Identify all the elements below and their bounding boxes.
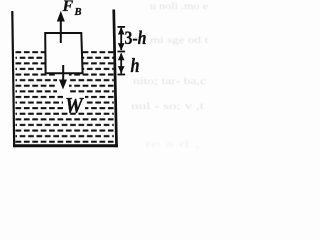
- white keep-out around W arrow: [57, 74, 69, 93]
- svg-text:F: F: [62, 0, 74, 15]
- block: [45, 33, 82, 73]
- svg-text:h: h: [131, 55, 140, 77]
- svg-text:u noli .mo e: u noli .mo e: [150, 1, 208, 11]
- svg-text:B: B: [74, 7, 82, 18]
- faint bleed-through text, right margin: [131, 1, 209, 149]
- dimension arrow (h): [118, 53, 126, 76]
- svg-text:te s d ,: te s d ,: [145, 139, 200, 149]
- liquid (dashed rows): [16, 51, 114, 143]
- buoyant force arrow F_B: [57, 11, 65, 43]
- tank right wall: [112, 10, 118, 148]
- svg-text:mi sge od t: mi sge od t: [150, 35, 209, 45]
- tank bottom: [13, 144, 118, 147]
- svg-text:W: W: [65, 92, 85, 117]
- white keep-out around W label: [63, 95, 85, 113]
- weight arrow W: [59, 65, 67, 90]
- svg-text:3-h: 3-h: [125, 28, 147, 49]
- svg-text:nul - so; v ,t: nul - so; v ,t: [131, 101, 205, 111]
- svg-text:nito; tar- ba,c: nito; tar- ba,c: [133, 76, 206, 86]
- tank left wall: [11, 11, 15, 147]
- dimension arrow (3-h): [118, 26, 126, 52]
